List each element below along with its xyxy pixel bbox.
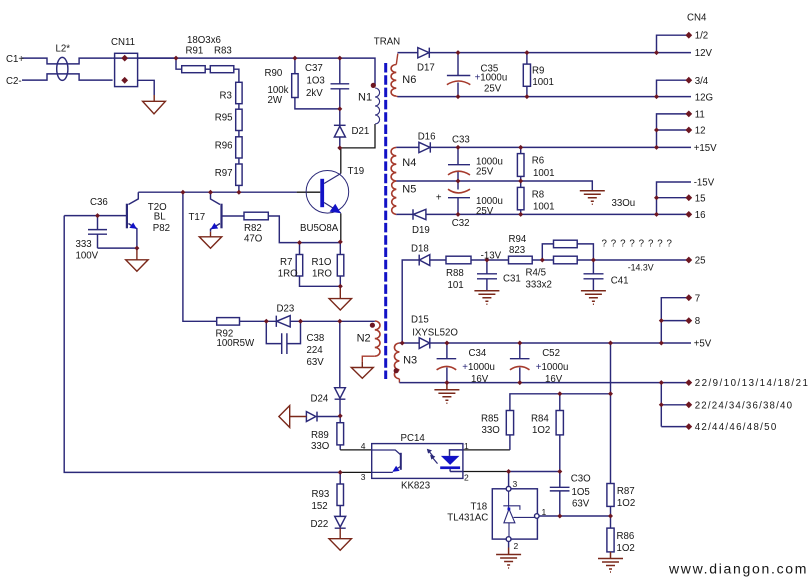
wire +15V rail left — [396, 146, 419, 148]
resistor R97 — [236, 164, 242, 185]
capacitor C31 — [477, 260, 497, 291]
wire R4/5 right link — [577, 244, 593, 260]
svg-text:63V: 63V — [572, 499, 590, 510]
resistor R94 — [509, 256, 533, 264]
svg-text:333: 333 — [76, 239, 92, 250]
wire T18 pin1 to R87 node — [539, 515, 610, 517]
ground at CN11 — [143, 95, 166, 114]
diode D16 — [419, 142, 430, 152]
diode D19 — [413, 209, 426, 219]
node D24 top — [337, 319, 342, 324]
winding N4 — [391, 147, 396, 181]
svg-text:12V: 12V — [695, 48, 713, 59]
wire T17 emitter lead — [211, 224, 221, 232]
node R7/R10 bottom — [338, 284, 343, 289]
svg-text:42/44/46/48/50: 42/44/46/48/50 — [695, 422, 778, 433]
node R94 right — [540, 258, 545, 263]
wire C2- input — [22, 74, 113, 80]
capacitor C34 bottom lead — [446, 368, 448, 383]
wire R3-R95 — [238, 104, 240, 110]
node C35 bottom — [456, 94, 461, 99]
wire T17 collector — [211, 192, 221, 204]
svg-text:R87: R87 — [617, 486, 635, 497]
svg-text:R97: R97 — [215, 168, 233, 179]
svg-text:CN11: CN11 — [111, 37, 135, 48]
svg-text:R4/5: R4/5 — [526, 268, 546, 279]
svg-text:C36: C36 — [90, 197, 108, 208]
connector CN11 — [115, 53, 138, 86]
node pin15 junction — [654, 195, 659, 200]
svg-text:152: 152 — [312, 501, 328, 512]
node D23 right — [298, 319, 303, 324]
diode D21 — [334, 124, 346, 126]
svg-text:1RO: 1RO — [278, 269, 298, 280]
node R7 top — [297, 240, 302, 245]
winding N5 — [392, 181, 397, 214]
node +15V junction — [654, 145, 659, 150]
svg-text:12: 12 — [695, 126, 706, 137]
resistor R82 — [244, 212, 268, 220]
resistor R85 — [506, 411, 513, 435]
diode D17 — [418, 48, 430, 58]
capacitor C33 arc — [448, 171, 470, 175]
wire left loop down — [64, 216, 340, 473]
svg-text:16V: 16V — [545, 374, 563, 385]
svg-text:R83: R83 — [214, 46, 232, 57]
wire pin 7 — [661, 298, 689, 343]
capacitor C37 — [331, 84, 350, 89]
svg-text:R7: R7 — [280, 257, 292, 268]
svg-text:R9: R9 — [532, 66, 544, 77]
node C31 — [484, 258, 489, 263]
svg-text:3: 3 — [513, 479, 518, 489]
winding N3 bottom lead — [398, 379, 400, 383]
svg-text:R91: R91 — [186, 46, 204, 57]
node 12G junction — [654, 94, 659, 99]
node R9 top — [524, 50, 529, 55]
polarity dot N1 — [371, 83, 376, 88]
node R87/R86 — [608, 514, 613, 519]
node pin12 junction — [654, 128, 659, 133]
svg-text:-14.3V: -14.3V — [628, 263, 654, 273]
node top rail R91 — [174, 56, 179, 61]
svg-text:1: 1 — [464, 441, 469, 451]
wire C37 bottom lead to D21 — [339, 89, 341, 126]
wire D23 to N2 — [290, 320, 375, 322]
wire R90 top — [294, 58, 296, 74]
wire R90 bottom to C37 node — [295, 98, 340, 109]
capacitor C35 arc — [447, 81, 470, 85]
wire mid rail — [396, 181, 592, 191]
resistor R88 — [446, 256, 471, 264]
wire R87 bottom — [610, 506, 612, 528]
wire pin2 node down C30 — [509, 472, 560, 488]
svg-text:18O3x6: 18O3x6 — [187, 35, 221, 46]
wire T19 emitter lead — [340, 213, 342, 242]
wire R83 to R3 — [234, 69, 239, 82]
wire C36 bottom to T20 emitter — [98, 247, 137, 249]
svg-text:2: 2 — [464, 473, 469, 483]
svg-text:C34: C34 — [469, 348, 487, 359]
svg-text:R88: R88 — [446, 268, 464, 279]
svg-text:C32: C32 — [452, 218, 470, 229]
wire T20 emitter lead — [128, 224, 137, 249]
svg-text:+1000u: +1000u — [475, 73, 508, 84]
wire -15V rail — [426, 213, 689, 215]
capacitor C34 plate — [437, 358, 457, 360]
svg-text:TRAN: TRAN — [374, 37, 400, 48]
svg-text:L2*: L2* — [56, 44, 71, 55]
earth ground at C34 rail — [434, 383, 459, 404]
node N3 top — [400, 341, 405, 346]
svg-text:1001: 1001 — [533, 202, 555, 213]
node R9 bottom — [524, 94, 529, 99]
resistor R90 — [292, 74, 298, 98]
resistor R96 — [236, 137, 242, 158]
svg-text:22/9/10/13/14/18/21: 22/9/10/13/14/18/21 — [695, 378, 810, 389]
earth ground at C41 — [581, 291, 606, 305]
wire R89 leads — [339, 416, 341, 450]
wire 12V rail left — [398, 52, 418, 54]
diode D22 — [335, 516, 346, 528]
node C41 — [591, 258, 596, 263]
optocoupler PC14 — [372, 444, 463, 479]
node R90/C37 bottom — [337, 106, 342, 111]
svg-text:C33: C33 — [452, 135, 470, 146]
capacitor C32 top lead — [457, 181, 459, 190]
node +5 vertical top — [608, 341, 613, 346]
resistor R95 — [236, 109, 242, 130]
node C30 bottom — [557, 514, 562, 519]
svg-text:KK823: KK823 — [401, 481, 430, 492]
node C35 top — [456, 50, 461, 55]
wire T20 collector — [128, 192, 138, 204]
capacitor C38 loop — [266, 321, 300, 354]
wire bottom +5 rail — [399, 382, 688, 384]
capacitor C41 — [584, 260, 604, 291]
wire R89 to opto pin4 — [340, 449, 372, 451]
svg-text:15: 15 — [695, 193, 706, 204]
node top rail C37 — [337, 56, 342, 61]
svg-text:11: 11 — [695, 110, 705, 121]
resistor R8 — [517, 187, 524, 209]
node R84/85 rail right — [608, 391, 613, 396]
svg-text:C38: C38 — [307, 333, 325, 344]
svg-text:1O2: 1O2 — [617, 498, 635, 509]
wire R95-R96 — [238, 131, 240, 137]
node CN11 pin1 — [121, 55, 128, 62]
resistor R91 — [182, 66, 206, 73]
capacitor C32 bottom lead — [457, 198, 459, 215]
capacitor C30 — [550, 487, 570, 491]
wire CN11 top through — [113, 57, 176, 59]
capacitor C33 plate — [448, 164, 470, 166]
wire CN11 bottom to ground — [138, 80, 155, 95]
transistor T17 — [211, 204, 222, 230]
ground at T20 emitter — [126, 248, 148, 271]
svg-text:www.diangon.com: www.diangon.com — [668, 561, 808, 577]
svg-text:D18: D18 — [411, 244, 429, 255]
svg-text:+1000u: +1000u — [536, 362, 569, 373]
wire diode to node — [317, 416, 340, 418]
svg-text:R95: R95 — [215, 113, 233, 124]
capacitor C52 plate — [510, 358, 530, 360]
svg-text:+15V: +15V — [694, 143, 717, 154]
wire main top rail — [138, 58, 375, 85]
node 22/24 rail — [659, 402, 664, 407]
wire feedback vertical from base rail — [183, 192, 217, 321]
wire -15V label lead — [657, 182, 692, 214]
ground at D22 — [329, 528, 351, 550]
wire R4/5 left link — [542, 244, 553, 260]
capacitor C33 bottom lead — [457, 172, 459, 181]
svg-text:3: 3 — [361, 472, 366, 482]
svg-text:47O: 47O — [244, 233, 263, 244]
svg-text:33Ou: 33Ou — [612, 198, 636, 209]
wire D24 to R89 node — [339, 399, 341, 416]
node pins7/8 bottom — [659, 341, 664, 346]
capacitor C34 top lead — [446, 343, 448, 359]
wire C37 top lead — [339, 58, 341, 84]
svg-text:????????: ???????? — [602, 239, 676, 250]
svg-text:D23: D23 — [277, 304, 295, 315]
resistor R3 — [236, 82, 242, 103]
wire -15V rail left — [396, 213, 413, 215]
capacitor C34 arc — [437, 366, 457, 369]
node C33 top — [456, 145, 461, 150]
wire T18 pin2 down — [508, 542, 510, 548]
diode at bias branch — [306, 412, 317, 422]
svg-text:D16: D16 — [418, 132, 436, 143]
wire R8 leads — [520, 181, 522, 214]
svg-text:1001: 1001 — [533, 168, 555, 179]
svg-text:C41: C41 — [611, 276, 629, 287]
capacitor C52 bottom lead — [519, 368, 521, 383]
wire C1+ input — [22, 58, 113, 64]
svg-text:C52: C52 — [542, 348, 560, 359]
svg-text:PC14: PC14 — [401, 433, 426, 444]
svg-text:63V: 63V — [307, 357, 325, 368]
inductor L2* — [57, 57, 68, 80]
winding N2 bottom lead — [362, 356, 375, 362]
wire pin 3/4 — [657, 80, 689, 96]
svg-text:TL431AC: TL431AC — [447, 513, 488, 524]
wire pin 12 — [657, 129, 689, 131]
svg-text:8: 8 — [695, 316, 700, 327]
node pin16 junction — [654, 212, 659, 217]
svg-text:D24: D24 — [311, 394, 329, 405]
node opto pin2/T18 — [506, 469, 511, 474]
earth ground at T18 — [496, 548, 521, 569]
earth ground at R86 — [598, 552, 623, 572]
resistor R92 — [217, 318, 240, 326]
capacitor C32 arc — [448, 189, 470, 193]
svg-text:BU5O8A: BU5O8A — [300, 223, 339, 234]
wire R94 to R4/5 — [532, 259, 553, 261]
node R89 top — [338, 413, 343, 418]
node R8 bottom — [518, 212, 523, 217]
svg-text:1RO: 1RO — [312, 269, 332, 280]
wire R6 leads — [520, 147, 522, 181]
node R84/85 rail left — [557, 391, 562, 396]
svg-text:R1O: R1O — [312, 257, 332, 268]
wire 12V rail — [429, 52, 691, 54]
capacitor C33 top lead — [457, 147, 459, 164]
svg-text:16: 16 — [695, 210, 706, 221]
wire R10 leads — [339, 242, 341, 286]
wire C30 bottom — [559, 491, 561, 516]
svg-text:1/2: 1/2 — [695, 31, 708, 42]
wire pin 11 — [657, 114, 689, 147]
regulator T18 TL431AC — [492, 486, 539, 541]
wire R85 top to rail — [510, 394, 611, 411]
svg-text:R94: R94 — [509, 234, 527, 245]
svg-text:N5: N5 — [402, 184, 416, 196]
svg-text:1001: 1001 — [532, 77, 554, 88]
transformer core TRAN — [384, 63, 387, 379]
winding N2 — [375, 321, 380, 356]
wire R93 top — [339, 472, 341, 484]
svg-text:D21: D21 — [352, 126, 370, 137]
svg-text:N6: N6 — [402, 74, 416, 86]
transistor T19 — [306, 171, 349, 214]
svg-text:-13V: -13V — [481, 251, 502, 262]
wire R7 leads — [300, 243, 341, 287]
svg-text:224: 224 — [307, 345, 324, 356]
svg-text:100R5W: 100R5W — [217, 338, 256, 349]
node C34 top — [444, 341, 449, 346]
svg-text:C2-: C2- — [6, 76, 22, 87]
wire R96-R97 — [238, 158, 240, 164]
svg-text:12G: 12G — [695, 92, 713, 103]
svg-text:CN4: CN4 — [687, 13, 707, 24]
svg-text:100V: 100V — [76, 251, 99, 262]
node R10 top — [338, 239, 343, 244]
polarity dot N3 — [394, 368, 399, 373]
resistor R93 — [337, 484, 344, 506]
svg-text:C1+: C1+ — [6, 54, 24, 65]
resistor R84 — [556, 411, 563, 435]
wire long +5 vertical — [610, 343, 612, 484]
svg-text:7: 7 — [695, 293, 700, 304]
svg-text:R6: R6 — [532, 156, 544, 167]
resistor R10 — [337, 255, 344, 277]
node opto pin3 — [338, 470, 343, 475]
svg-text:101: 101 — [448, 280, 464, 291]
wire pin 15 — [657, 197, 689, 199]
resistor R7 — [296, 255, 303, 277]
svg-text:D22: D22 — [311, 519, 329, 530]
wire R82 to R7 node — [268, 216, 340, 243]
wire loop to opto pin3 — [340, 471, 372, 473]
wire R92 to D23 — [240, 320, 277, 322]
svg-text:P82: P82 — [153, 223, 170, 234]
svg-text:16V: 16V — [471, 374, 489, 385]
svg-text:N4: N4 — [402, 157, 416, 169]
svg-text:2: 2 — [514, 541, 519, 551]
capacitor C52 top lead — [519, 343, 521, 359]
wire base rail — [138, 191, 296, 193]
resistor R6 — [517, 154, 524, 177]
node top rail R90 — [292, 56, 297, 61]
ground at R7/R10 — [329, 286, 351, 310]
wire opto pin2 — [463, 471, 509, 473]
node 12V junction — [654, 50, 659, 55]
resistor R83 — [210, 66, 234, 73]
resistor R86 — [607, 528, 614, 552]
wire R9 leads — [526, 53, 528, 97]
svg-text:3/4: 3/4 — [695, 76, 709, 87]
capacitor C52 arc — [510, 366, 530, 369]
wire pin 8 — [661, 320, 689, 322]
wire R91-R83 — [205, 68, 210, 70]
svg-text:R89: R89 — [311, 430, 329, 441]
node C32 bottom — [456, 212, 461, 217]
svg-text:22/24/34/36/38/40: 22/24/34/36/38/40 — [695, 400, 794, 411]
node base rail feedback — [180, 190, 185, 195]
wire +5V rail — [430, 342, 691, 344]
svg-text:C31: C31 — [503, 274, 521, 285]
winding N6 — [391, 65, 396, 97]
node C33 mid — [456, 179, 461, 184]
wire T19 base stub — [297, 191, 321, 193]
diode D23 — [276, 316, 290, 327]
svg-text:+1000u: +1000u — [462, 362, 495, 373]
opto LED — [440, 450, 463, 472]
opto emitter arrow — [392, 466, 399, 472]
wire rail to pin25 — [593, 259, 688, 261]
resistor R4/5 bottom — [554, 256, 578, 264]
node CN11 pin2 — [121, 77, 128, 84]
capacitor C36 — [88, 216, 107, 249]
svg-text:1O5: 1O5 — [572, 487, 590, 498]
svg-text:R96: R96 — [215, 140, 233, 151]
svg-text:2W: 2W — [268, 95, 283, 106]
wire N3 top rail — [399, 342, 419, 344]
wire +15V rail — [430, 146, 691, 148]
wire pin1 to R85 — [509, 435, 511, 450]
transistor T20 — [127, 204, 137, 229]
node base rail R97 — [236, 190, 241, 195]
wire D18 to R88 — [430, 259, 446, 261]
svg-text:25V: 25V — [476, 206, 494, 217]
svg-text:R8: R8 — [532, 190, 544, 201]
wire D24 vertical — [339, 321, 341, 387]
wire T17 base to R82 — [222, 215, 244, 217]
wire R88 to C31 node — [471, 259, 509, 261]
svg-text:25V: 25V — [484, 84, 502, 95]
polarity dot N2 — [370, 323, 375, 328]
svg-text:T18: T18 — [471, 502, 488, 513]
svg-text:1O2: 1O2 — [617, 543, 635, 554]
wire T18 pin3 lead — [508, 472, 510, 487]
diode D15 — [419, 338, 430, 349]
svg-text:4: 4 — [361, 441, 366, 451]
wire opto pin1 — [463, 449, 510, 451]
node C36 top — [95, 213, 100, 218]
diode D24 — [335, 388, 346, 400]
svg-text:D19: D19 — [412, 225, 430, 236]
resistor R4/5 top — [554, 240, 578, 248]
wire D18 rail corner — [402, 260, 419, 343]
wire D21 to collector node — [339, 137, 341, 148]
svg-text:R86: R86 — [617, 531, 635, 542]
wire R84 leads — [559, 394, 561, 472]
wire pin 42/44 — [661, 426, 689, 428]
svg-text:D17: D17 — [417, 63, 435, 74]
wire N1 bottom black — [340, 124, 375, 148]
node C52 top — [517, 341, 522, 346]
